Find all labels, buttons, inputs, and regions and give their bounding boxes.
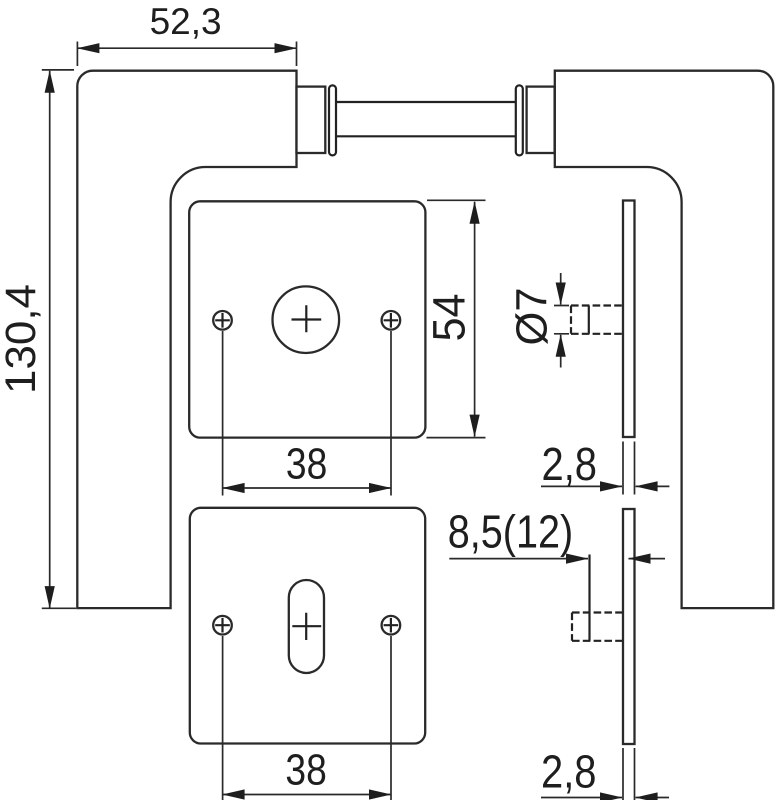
dimension 54 witness bottom [427, 437, 486, 439]
right handle ring [516, 85, 523, 155]
dimension 54 witness top [427, 199, 486, 201]
centre circle cross [292, 305, 322, 332]
spindle stub face line (upper) [588, 306, 590, 334]
dimension 130,4 witness bottom [42, 607, 76, 609]
dimension 2,8 (upper) arrow right [636, 485, 670, 487]
svg-text:8,5(12): 8,5(12) [448, 505, 574, 557]
svg-text:2,8: 2,8 [542, 438, 598, 490]
dimension 8,5(12) leader / stub face line [588, 555, 590, 641]
dimension 52,3 witness right [296, 42, 298, 67]
svg-text:130,4: 130,4 [0, 284, 45, 394]
dimension 38 (lower rosette) [223, 794, 391, 796]
spindle stub hidden outline (lower) [572, 613, 623, 641]
dimension 2,8 (lower) arrow left [541, 797, 622, 799]
left handle lever outline [77, 71, 296, 608]
dimension 8,5(12) arrow right [449, 558, 588, 560]
dimension Ø7 extension ticks [554, 306, 569, 334]
lower rosette screw left [213, 616, 232, 635]
spindle bar top line [337, 101, 516, 103]
dimension 130,4 [49, 71, 51, 608]
extension line from left screw [222, 331, 224, 496]
key slot cross [292, 613, 321, 640]
rosette screw left [213, 311, 232, 330]
dimension 2,8 (lower) arrow right [636, 797, 669, 799]
dimension 52,3 witness left [76, 42, 78, 67]
key slot oval [289, 580, 324, 673]
rosette side view plate (lower) [623, 509, 635, 744]
dimension Ø7 arrow bottom [560, 335, 562, 368]
extension line from lower left screw [222, 636, 224, 800]
right handle neck collar [527, 87, 555, 153]
dimension 8,5(12) arrow left [629, 558, 666, 560]
rosette side view plate (upper) [623, 201, 635, 438]
svg-text:54: 54 [423, 294, 474, 342]
svg-text:Ø7: Ø7 [508, 288, 557, 346]
right handle lever outline [555, 71, 774, 608]
plate extension lines below (upper) [623, 442, 635, 495]
dimension 2,8 (upper) arrow left [541, 485, 622, 487]
square rosette with key slot (bottom view) [190, 508, 425, 744]
dimension 54 [474, 202, 476, 437]
svg-text:52,3: 52,3 [150, 1, 222, 42]
dimension 52,3 [77, 47, 296, 49]
spindle bar bottom line [337, 135, 516, 137]
left handle neck collar [297, 87, 326, 153]
svg-text:38: 38 [285, 745, 326, 794]
dimension Ø7 arrow top [560, 273, 562, 305]
square rosette (top view) [189, 201, 425, 437]
svg-text:2,8: 2,8 [541, 745, 597, 797]
dimension 130,4 witness top [42, 69, 74, 71]
extension line from lower right screw [390, 636, 392, 800]
dimension 38 (upper rosette) [223, 487, 391, 489]
plate extension lines below (lower) [623, 748, 635, 800]
spindle stub hidden outline (upper) [571, 306, 623, 334]
extension line from right screw [390, 331, 392, 496]
rosette centre circle [273, 286, 340, 353]
lower rosette screw right [382, 616, 401, 635]
left handle ring [329, 85, 336, 155]
rosette screw right [382, 311, 401, 330]
svg-text:38: 38 [286, 439, 327, 488]
